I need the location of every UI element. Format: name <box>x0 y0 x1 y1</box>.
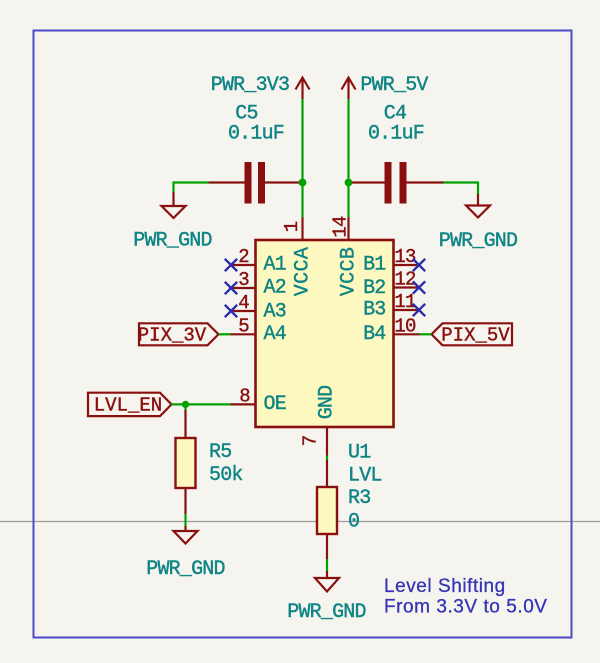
wire pin 10 to PIX_5V <box>420 333 432 335</box>
svg-text:11: 11 <box>394 291 416 313</box>
pin 13 B1 <box>363 246 419 277</box>
pin 2 A1 <box>231 246 287 277</box>
svg-text:PIX_5V: PIX_5V <box>441 324 510 346</box>
svg-text:PWR_GND: PWR_GND <box>287 601 365 624</box>
resistor R3 <box>317 460 337 559</box>
wire R5 to ground <box>184 514 186 526</box>
wire PIX_3V to pin 5 <box>219 333 231 335</box>
svg-text:From 3.3V to 5.0V: From 3.3V to 5.0V <box>384 597 548 618</box>
pin 3 A2 <box>231 269 286 300</box>
ground symbol right PWR_GND <box>466 194 490 218</box>
svg-text:GND: GND <box>316 386 339 420</box>
svg-text:2: 2 <box>238 246 249 268</box>
power flag PWR_5V <box>342 74 429 99</box>
svg-text:U1: U1 <box>348 442 371 465</box>
global label PIX_3V <box>138 323 219 346</box>
svg-text:B4: B4 <box>363 323 385 346</box>
global label PIX_5V <box>432 323 513 346</box>
svg-text:8: 8 <box>239 385 250 407</box>
capacitor C5 <box>209 162 303 204</box>
power flag PWR_3V3 <box>211 74 310 99</box>
svg-text:0.1uF: 0.1uF <box>228 123 284 146</box>
junction dot PWR_3V3 <box>299 179 307 187</box>
svg-text:4: 4 <box>238 292 249 314</box>
svg-text:LVL_EN: LVL_EN <box>94 394 162 416</box>
svg-text:7: 7 <box>300 436 322 447</box>
wire R3 to ground <box>326 559 328 571</box>
svg-text:A1: A1 <box>264 254 287 277</box>
svg-text:VCCB: VCCB <box>338 247 361 297</box>
svg-text:B3: B3 <box>363 299 385 322</box>
no-connect X pin 12 <box>413 281 425 293</box>
capacitor C4 <box>349 162 444 204</box>
svg-text:50k: 50k <box>209 464 243 487</box>
svg-text:0: 0 <box>348 511 359 534</box>
svg-text:A3: A3 <box>264 301 286 324</box>
pin 11 B3 <box>363 291 419 322</box>
IC U1 level shifter body <box>256 240 394 427</box>
ground symbol R5 PWR_GND <box>174 526 198 544</box>
pin 10 B4 <box>363 315 419 346</box>
no-connect X pin 11 <box>413 304 425 316</box>
junction dot PWR_5V <box>345 179 353 187</box>
wire PWR_3V3 stem to pin 1 <box>301 99 303 218</box>
ground symbol R3 PWR_GND <box>315 571 339 592</box>
pin 1 VCCA <box>281 218 303 241</box>
svg-text:1: 1 <box>281 221 303 232</box>
svg-text:13: 13 <box>394 246 416 268</box>
svg-text:10: 10 <box>394 315 416 337</box>
svg-text:B1: B1 <box>363 254 386 277</box>
wire C5 left to ground <box>174 183 209 193</box>
no-connect X pin 13 <box>413 259 425 271</box>
svg-text:12: 12 <box>394 269 416 291</box>
no-connect X pin 4 <box>225 305 237 317</box>
svg-text:PWR_5V: PWR_5V <box>360 74 428 97</box>
svg-text:PIX_3V: PIX_3V <box>138 324 207 346</box>
resistor R5 <box>176 410 196 514</box>
wire C4 right to ground <box>444 183 479 195</box>
global label LVL_EN <box>88 393 172 417</box>
svg-text:0.1uF: 0.1uF <box>368 123 424 146</box>
svg-text:A4: A4 <box>264 323 286 346</box>
pin 14 VCCB <box>330 216 352 240</box>
pin 5 A4 <box>231 315 286 346</box>
svg-text:A2: A2 <box>264 277 286 300</box>
svg-text:PWR_GND: PWR_GND <box>146 558 224 581</box>
svg-text:PWR_GND: PWR_GND <box>133 230 211 253</box>
svg-text:3: 3 <box>238 269 249 291</box>
pin 4 A3 <box>231 292 286 324</box>
junction dot LVL_EN <box>182 401 189 408</box>
no-connect X pin 3 <box>225 282 237 294</box>
svg-text:R5: R5 <box>209 441 231 464</box>
wire LVL_EN to pin 8 <box>172 403 231 405</box>
pin 7 GND <box>300 427 328 456</box>
svg-text:B2: B2 <box>363 277 385 300</box>
pin 8 OE <box>231 385 286 416</box>
svg-text:14: 14 <box>330 216 352 238</box>
svg-text:5: 5 <box>238 315 249 337</box>
wire pin 7 to R3 <box>326 456 328 461</box>
wire junction to R5 <box>184 404 186 410</box>
svg-text:PWR_GND: PWR_GND <box>439 230 517 253</box>
no-connect X pin 2 <box>225 259 237 271</box>
svg-text:OE: OE <box>264 393 286 416</box>
svg-text:LVL: LVL <box>348 465 382 488</box>
wire PWR_5V stem to pin 14 <box>347 99 349 218</box>
svg-text:R3: R3 <box>348 487 370 510</box>
svg-text:Level Shifting: Level Shifting <box>384 576 506 597</box>
svg-text:PWR_3V3: PWR_3V3 <box>211 74 289 97</box>
pin 12 B2 <box>363 269 419 301</box>
svg-text:VCCA: VCCA <box>292 247 315 297</box>
ground symbol left PWR_GND <box>162 192 186 218</box>
